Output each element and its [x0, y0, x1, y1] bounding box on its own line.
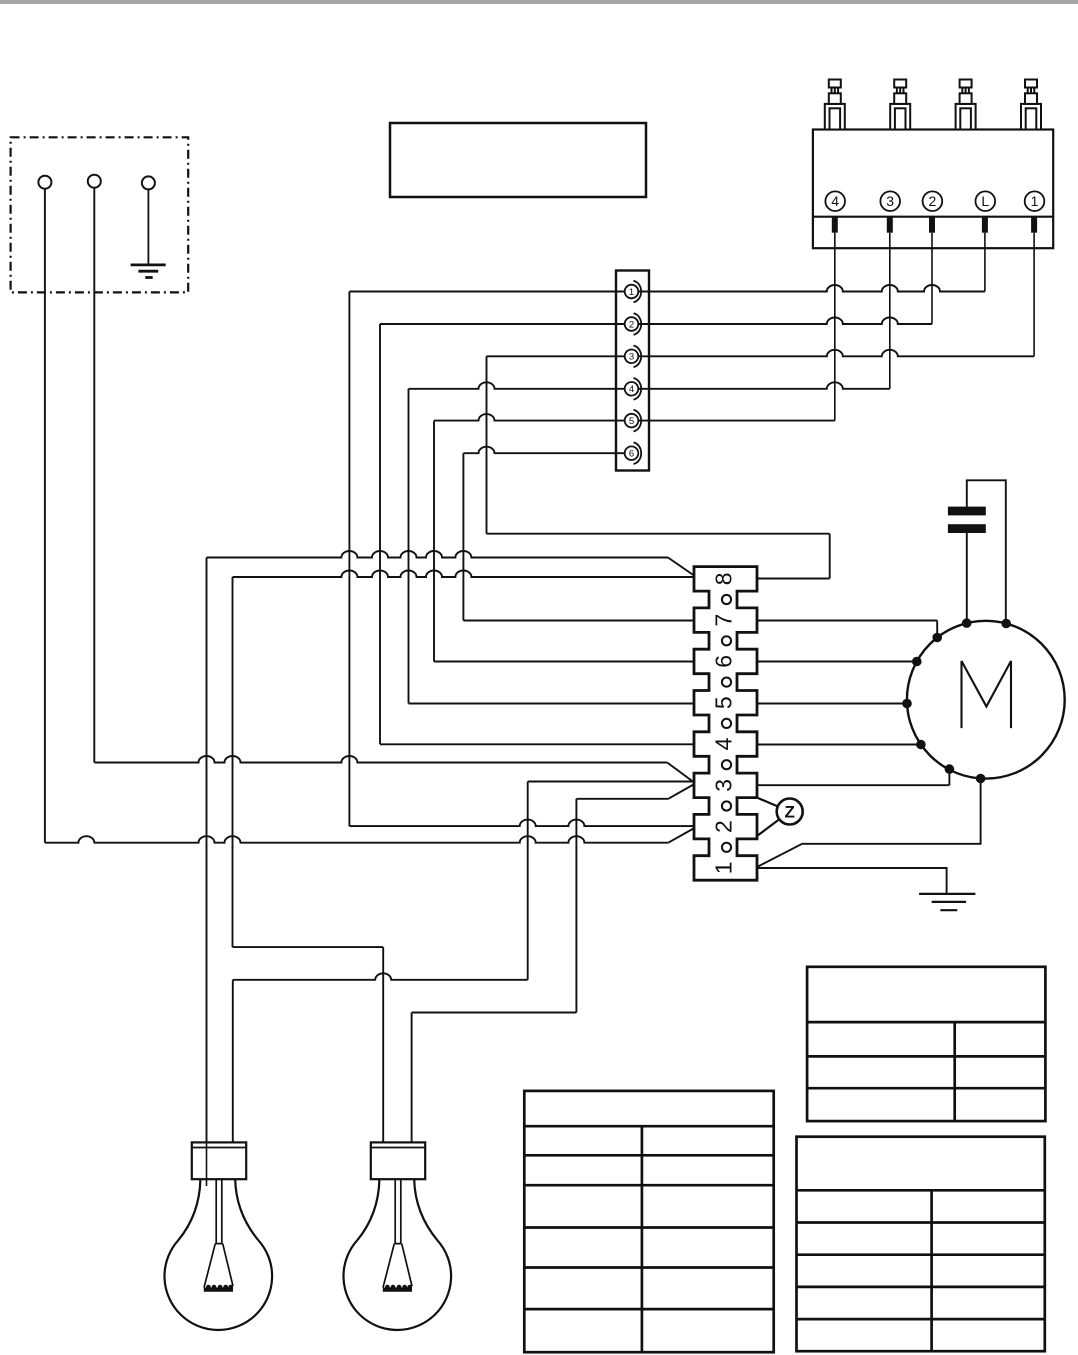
wire: switch terminal 3 lead: [889, 233, 891, 389]
svg-text:1: 1: [1031, 193, 1039, 209]
switch push-button 3: [956, 80, 976, 130]
wire: plug pin 1 to connector pin 2 (diagonal end): [44, 189, 46, 843]
wire: terminal strip 5 to connector pin 6: [433, 421, 435, 662]
switch push-button 1: [825, 80, 845, 130]
lamp E1 holder: [192, 1142, 246, 1179]
wire: terminal strip 1 to switch terminal L: [349, 285, 985, 291]
connector divider dot: [722, 760, 731, 769]
svg-text:1: 1: [629, 287, 634, 298]
table bottom-right (empty legend): [797, 1137, 1045, 1352]
svg-text:4: 4: [711, 737, 737, 750]
wire: terminal strip 4 to connector pin 5: [408, 389, 410, 704]
wire: switch terminal L lead: [984, 233, 986, 292]
plug pin PE: [142, 176, 155, 189]
wire: connector pin 8 to lamp 2 terminal A: [233, 571, 695, 578]
indicator lamp Z: [777, 799, 803, 825]
svg-text:3: 3: [629, 352, 634, 363]
connector divider dot: [722, 678, 731, 687]
connector divider dot: [722, 719, 731, 728]
svg-text:6: 6: [711, 655, 737, 668]
svg-text:4: 4: [831, 193, 839, 209]
switch terminal L: [976, 191, 996, 211]
motor terminal dot 7: [945, 764, 955, 774]
wire: terminal strip 3 to connector pin 8 right side: [486, 356, 488, 533]
wire: terminal strip 3 to switch terminal 1: [487, 350, 1035, 357]
lamp E1 filament: [204, 1180, 233, 1290]
svg-text:1: 1: [711, 862, 737, 875]
wire: connector pin 3 to motor terminal: [757, 784, 949, 786]
wire: terminal strip 1 to connector pin 2: [348, 292, 350, 827]
connector divider dot: [722, 801, 731, 810]
svg-text:2: 2: [629, 319, 634, 330]
plug pin 2: [88, 175, 101, 188]
8 pole connector block: [694, 567, 757, 881]
lamp E2 bulb: [343, 1179, 451, 1330]
earth ground symbol (motor circuit): [919, 893, 975, 895]
motor terminal dot 5: [902, 699, 912, 709]
switch assembly body: [813, 130, 1053, 249]
wire: terminal strip 2 to switch terminal 2: [380, 318, 932, 324]
wire: connector pin 6 to motor terminal: [757, 661, 917, 663]
switch terminal 1: [1025, 191, 1045, 211]
connector divider dot: [722, 843, 731, 852]
connector divider dot: [722, 595, 731, 604]
wire: connector pin 1 to motor bottom terminal: [757, 779, 981, 868]
terminal strip contact 1: [625, 285, 639, 299]
wire: lamp 2 terminal B to connector pin 3 (diagonal): [411, 1013, 413, 1143]
top gray bar: [0, 0, 1078, 4]
plug earth ground symbol: [147, 189, 149, 265]
wire: terminal strip 4 to switch terminal 3: [409, 382, 890, 389]
wire: connector pin 1 to earth: [757, 868, 947, 894]
wire: capacitor to motor terminals: [967, 480, 1006, 623]
svg-text:5: 5: [629, 416, 634, 427]
motor M: [907, 621, 1065, 779]
wire: connector pin 5 to motor terminal: [757, 703, 907, 705]
svg-text:2: 2: [929, 193, 937, 209]
switch push-button 2: [890, 80, 910, 130]
motor terminal dot 8: [976, 774, 986, 784]
wire: connector pin 7 to motor terminal: [757, 620, 937, 622]
svg-text:3: 3: [886, 193, 894, 209]
lamp E2 holder: [371, 1142, 425, 1179]
plug pin 1: [38, 176, 51, 189]
connector divider dot: [722, 636, 731, 645]
switch terminal 4: [825, 191, 845, 211]
terminal strip contact 2: [625, 317, 639, 331]
svg-text:7: 7: [711, 614, 737, 627]
svg-text:Z: Z: [785, 803, 795, 822]
mains plug enclosure (dash-dot box): [11, 137, 189, 292]
svg-text:6: 6: [629, 449, 634, 460]
table middle-right (empty legend): [807, 967, 1045, 1121]
motor terminal dot 1: [962, 618, 972, 628]
motor terminal dot 4: [912, 657, 922, 667]
terminal strip contact 6: [625, 446, 639, 460]
switch terminal 3: [880, 191, 900, 211]
wire: plug pin 2 (L) to connector pin 3: [93, 188, 95, 763]
wire: connector pin 3 to indicator Z: [757, 798, 778, 807]
wire: terminal strip 5 to switch terminal 4: [434, 414, 835, 421]
wire: switch terminal 1 lead: [1033, 233, 1035, 357]
capacitor C1 plate 1: [948, 507, 986, 516]
terminal strip contact 4: [625, 382, 639, 396]
wire: switch terminal 4 lead: [834, 233, 836, 421]
svg-text:8: 8: [711, 573, 737, 586]
lamp E1 bulb: [164, 1179, 272, 1330]
wire: terminal strip 6 to connector pin 7: [462, 453, 464, 620]
empty label box: [390, 123, 646, 197]
wire: connector pin 4 to motor terminal: [757, 744, 921, 746]
wire: terminal strip 2 to connector pin 4: [379, 324, 381, 744]
wire: indicator Z to connector pin 2: [757, 819, 779, 836]
lamp E2 filament: [383, 1180, 412, 1290]
switch push-button 4: [1021, 80, 1041, 130]
motor terminal dot 6: [916, 740, 926, 750]
switch terminal 2: [923, 191, 943, 211]
wire: lamp 1 terminal B to connector pin 3: [232, 980, 234, 1143]
terminal strip contact 5: [625, 414, 639, 428]
svg-text:4: 4: [629, 384, 634, 395]
svg-text:L: L: [981, 193, 989, 209]
terminal strip contact 3: [625, 350, 639, 364]
motor terminal dot 2: [1001, 619, 1011, 629]
motor terminal dot 3: [932, 633, 942, 643]
capacitor C1 plate 2: [948, 524, 986, 533]
svg-text:2: 2: [711, 820, 737, 833]
svg-text:3: 3: [711, 779, 737, 792]
wire: lamp 1 terminal A to connector pin 8 (diagonal): [206, 558, 208, 1143]
wire: switch terminal 2 lead: [931, 233, 933, 324]
wire: terminal strip 6 left lead: [463, 447, 631, 453]
lamp E1 inner lead: [206, 1142, 208, 1186]
table bottom-left (empty legend): [524, 1091, 773, 1352]
terminal strip body: [616, 271, 649, 471]
svg-text:5: 5: [711, 696, 737, 709]
